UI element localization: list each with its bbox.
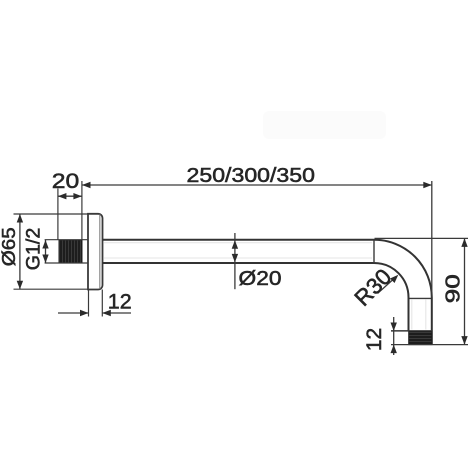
- svg-text:12: 12: [108, 290, 132, 314]
- vertical pipe left edge: [408, 298, 410, 332]
- svg-text:G1/2: G1/2: [23, 228, 45, 271]
- dim 20/250 shared extension: [81, 181, 83, 240]
- svg-text:R30: R30: [350, 264, 397, 311]
- dim 12 flange extension right: [101, 290, 103, 317]
- dim 90 line: [464, 238, 466, 344]
- dim 12 bottom line: [393, 317, 395, 355]
- dim 20 extension left: [57, 189, 59, 240]
- dim O65 line: [19, 214, 21, 289]
- dim 20 arrow right: [73, 193, 82, 199]
- bend start joint line: [373, 240, 375, 263]
- dim 250 right extension: [431, 181, 433, 298]
- pipe top line: [103, 239, 375, 241]
- bend end joint line: [409, 297, 432, 299]
- vertical pipe highlight left: [411, 300, 413, 330]
- svg-text:250/300/350: 250/300/350: [187, 165, 316, 187]
- dim 12 bottom ext top: [391, 330, 409, 332]
- dim 250/300/350 line: [82, 184, 432, 186]
- pipe bottom line: [103, 262, 375, 264]
- dim 20 arrow left: [58, 193, 67, 199]
- flange plate: [88, 214, 103, 290]
- dim G1/2 arrow up: [42, 240, 48, 249]
- dim 12 bottom arrow down: [391, 323, 397, 332]
- dim 12 flange arrow left: [102, 310, 111, 316]
- R30 leader arrow: [390, 275, 398, 283]
- dim O20 arrow up: [232, 240, 238, 249]
- dim O65 bottom extension: [14, 288, 89, 290]
- bend inner arc: [374, 263, 409, 298]
- dim G1/2 arrow down: [42, 255, 48, 264]
- dim 20 line: [58, 195, 82, 197]
- svg-text:20: 20: [52, 169, 80, 193]
- thread top line across pipe: [391, 330, 432, 332]
- pipe neck lines left of flange: [45, 239, 88, 241]
- dim 12 flange line left: [58, 312, 89, 314]
- svg-text:Ø65: Ø65: [0, 227, 19, 266]
- dim 90 arrow down: [461, 336, 467, 345]
- dim O20 line: [234, 233, 236, 289]
- dim 90 top extension: [375, 237, 469, 239]
- svg-text:Ø20: Ø20: [239, 267, 282, 290]
- dim O20 arrow down: [232, 254, 238, 263]
- dim 250 arrow right: [423, 182, 432, 188]
- dim 250 arrow left: [82, 182, 91, 188]
- watermark blob: [263, 111, 386, 139]
- R30 leader line: [378, 279, 395, 294]
- dim O65 top extension: [14, 213, 89, 215]
- dim 12 flange line right: [102, 312, 131, 314]
- vertical pipe highlight right: [425, 300, 427, 330]
- svg-text:12: 12: [363, 328, 386, 351]
- dim 12 flange extension left: [88, 290, 90, 317]
- dim 90 arrow up: [461, 238, 467, 247]
- dim 12 bottom arrow up: [391, 345, 397, 354]
- bottom thread block: [409, 331, 432, 345]
- wall thread G1/2 block: [59, 240, 82, 263]
- dim O65 arrow up: [17, 214, 23, 223]
- pipe highlight line upper: [104, 242, 372, 244]
- bottom end line / extensions: [391, 344, 468, 346]
- vertical pipe right edge: [431, 298, 433, 345]
- flange plate face line: [99, 215, 101, 289]
- bend outer arc: [374, 240, 432, 298]
- dim G1/2 line: [45, 240, 47, 263]
- svg-text:90: 90: [442, 274, 464, 303]
- dim 12 flange arrow right: [80, 310, 89, 316]
- pipe highlight line lower: [104, 257, 372, 259]
- dim O65 arrow down: [17, 281, 23, 290]
